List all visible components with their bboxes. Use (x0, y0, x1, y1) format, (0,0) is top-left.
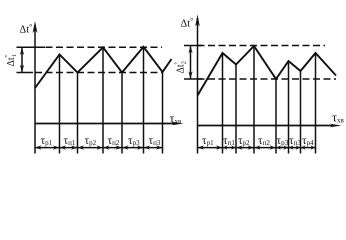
svg-text:Δt2°: Δt2° (174, 61, 188, 73)
drop line under peak 2 (right chart) (253, 46, 255, 154)
interval dimension line τп3 (left chart) (144, 147, 163, 149)
interval dimension line τр3 (right chart) (276, 147, 289, 149)
min level dashed line (left chart) (35, 72, 162, 74)
temperature waveform (right chart) (198, 46, 337, 96)
interval dimension line τп1 (right chart) (223, 147, 237, 149)
interval dimension line τп2 (right chart) (254, 147, 276, 149)
interval dimension line τр4 (right chart) (301, 147, 316, 149)
svg-text:Δt1°: Δt1° (4, 54, 18, 66)
max level dashed line (right chart) (198, 45, 326, 47)
drop line under peak 2 (left chart) (102, 47, 104, 153)
drop line under valley 2 (right chart) (275, 79, 277, 154)
y-axis (left chart) (34, 25, 36, 124)
drop line under valley 3 (left chart) (162, 72, 164, 154)
drop line under peak 1 (right chart) (222, 53, 224, 154)
interval dimension line τр2 (right chart) (236, 147, 254, 149)
x-axis arrowhead (left chart) (172, 122, 184, 125)
drop line under valley 1 (right chart) (235, 65, 237, 154)
drop line under valley 1 (left chart) (77, 73, 79, 154)
dimension tick top (left chart) (17, 46, 46, 48)
interval dimension line τр1 (right chart) (198, 147, 223, 149)
x-axis (left chart) (35, 123, 176, 125)
dimension tick bottom (left chart) (17, 72, 34, 74)
dimension tick bottom (right chart) (184, 78, 202, 80)
interval dimension line τр1 (left chart) (35, 147, 60, 149)
drop line under peak 1 (left chart) (59, 55, 61, 154)
max level dashed line (left chart) (35, 46, 162, 48)
drop line under valley 2 (left chart) (121, 73, 123, 154)
y-axis arrowhead (left chart) (33, 21, 38, 33)
temperature waveform (left chart) (35, 47, 172, 88)
dimension arrow line Δt1 (left chart) (21, 48, 23, 72)
first tick below origin (left chart) (34, 124, 36, 154)
dimension arrow line Δt2 (right chart) (190, 46, 192, 79)
interval dimension line τп1 (left chart) (60, 147, 78, 149)
drop line under peak 4 (right chart) (315, 53, 317, 154)
drop line under peak 3 (right chart) (288, 61, 290, 154)
interval dimension line τп2 (left chart) (103, 147, 122, 149)
y-axis arrowhead (right chart) (195, 15, 200, 27)
interval dimension line τр3 (left chart) (122, 147, 144, 149)
drop line under peak 3 (left chart) (143, 47, 145, 154)
y-axis (right chart) (197, 18, 199, 126)
x-axis arrowhead (right chart) (330, 124, 342, 127)
first tick below origin (right chart) (197, 126, 199, 154)
dimension tick top (right chart) (184, 45, 202, 47)
drop line under valley 3 (right chart) (300, 71, 302, 154)
interval dimension line τр2 (left chart) (78, 147, 104, 149)
x-axis (right chart) (198, 125, 335, 127)
min level dashed line (right chart) (198, 78, 337, 80)
interval dimension line τп3 (right chart) (289, 147, 301, 149)
